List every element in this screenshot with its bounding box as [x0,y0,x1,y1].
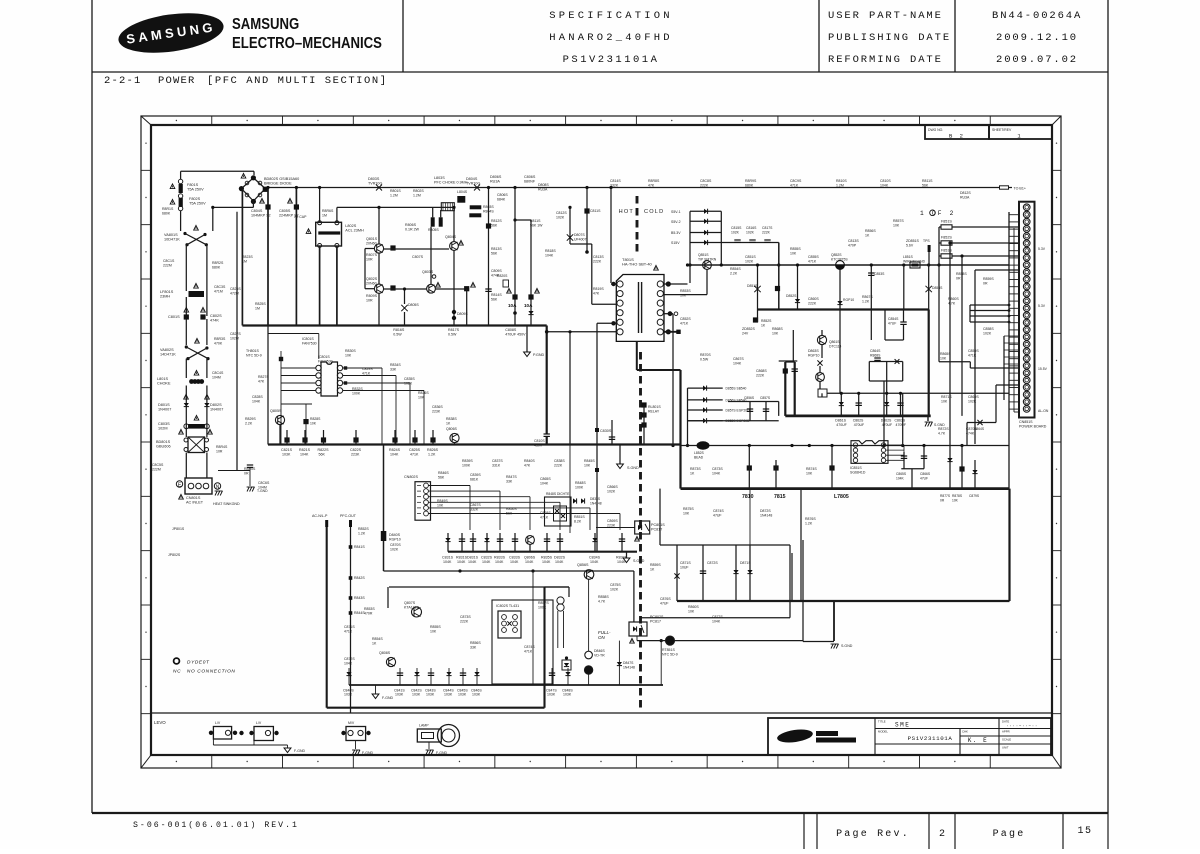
svg-text:C869S: C869S [607,519,618,523]
gnd mid triangle [526,326,528,353]
svg-text:C806S: C806S [497,193,508,197]
svg-text:CN851S: CN851S [1019,420,1033,424]
svg-text:C855S: C855S [808,255,819,259]
dark circle component [665,636,674,645]
svg-text:10K: 10K [683,511,690,515]
svg-text:R8R8S: R8R8S [648,179,660,183]
svg-text:C856S: C856S [744,396,755,400]
title block divider v1 [874,718,876,755]
svg-text:R853S: R853S [364,607,375,611]
svg-text:C837S: C837S [492,459,503,463]
svg-text:R835S: R835S [541,556,553,560]
bottom connector wires [212,739,214,745]
dwg no box [925,125,989,139]
svg-text:MODEL: MODEL [878,730,888,734]
svg-text:D803S: D803S [368,177,380,181]
svg-text:104K: 104K [590,560,599,564]
svg-text:RT851S: RT851S [662,648,675,652]
svg-text:C874S: C874S [524,645,535,649]
svg-text:471K: 471K [968,353,977,357]
wire x797 drop [797,265,799,310]
svg-text:471K: 471K [540,515,549,519]
svg-text:33K: 33K [506,479,513,483]
low bus forest [447,533,449,552]
loop box inner [492,600,553,684]
svg-text:C827S: C827S [230,332,241,336]
svg-text:10K: 10K [310,421,317,425]
svg-text:222K: 222K [762,230,771,234]
svg-text:471M: 471M [214,289,223,293]
svg-text:CHOKE: CHOKE [157,381,171,385]
svg-text:102K: 102K [610,587,619,591]
svg-text:470K: 470K [214,341,223,345]
fusible link F851S [941,225,952,229]
svg-text:223K: 223K [607,523,616,527]
svg-text:R847S: R847S [506,475,517,479]
svg-text:102K: 102K [607,489,616,493]
relay squares near dash [641,402,646,407]
svg-text:C851S: C851S [745,255,756,259]
svg-text:C835S: C835S [404,377,415,381]
svg-text:R829S: R829S [245,417,256,421]
svg-text:D857S EGP20D: D857S EGP20D [726,409,751,413]
gnd slash b7 [927,416,929,421]
wire tr left pin3 path [592,303,617,305]
svg-text:PFC-OUT: PFC-OUT [340,514,357,518]
svg-text:102M: 102M [158,426,168,430]
svg-text:470UF 450V: 470UF 450V [505,332,526,336]
svg-text:D804S: D804S [466,177,478,181]
gnd slash bottom 2 [426,750,428,755]
ic801 right wires [343,367,382,369]
svg-text:F802S: F802S [189,197,201,201]
svg-text:56K: 56K [491,223,498,227]
svg-text:R813S: R813S [491,247,502,251]
wire left col down3 [185,386,187,438]
svg-text:T5A 250V: T5A 250V [187,187,204,191]
svg-text:C817S: C817S [762,226,773,230]
svg-text:FAN7530: FAN7530 [318,359,333,363]
svg-text:R853S: R853S [680,289,691,293]
note nc [174,658,180,664]
pads on B3 [747,465,752,470]
svg-text:1M: 1M [322,213,327,217]
svg-text:470R: 470R [364,611,373,615]
svg-text:TIP SMTRN: TIP SMTRN [698,257,717,261]
ic851 right wires [886,444,904,446]
svg-text:BN44-00264A: BN44-00264A [992,10,1082,22]
svg-text:R817S: R817S [448,328,460,332]
wire x792 drop [791,553,793,601]
connector stub wires [1009,214,1019,216]
svg-text:X2 CAP: X2 CAP [294,215,307,219]
header CN802S [415,482,431,521]
svg-text:0.5W: 0.5W [700,357,709,361]
svg-text:D871S: D871S [740,561,751,565]
svg-text:C810S: C810S [880,179,891,183]
svg-text:R877S: R877S [940,494,951,498]
wire pc to left [596,527,635,529]
wire drop x531 fuse [530,220,532,326]
svg-text:C825S: C825S [409,448,421,452]
pfc fet Q801 [374,244,383,253]
svg-text:IC802S TL431: IC802S TL431 [496,604,519,608]
transistor Q807 [412,607,422,617]
svg-text:APPR: APPR [1002,730,1010,734]
connector CN851S [1019,202,1035,418]
svg-text:104K: 104K [344,661,353,665]
svg-text:47UF: 47UF [713,513,722,517]
header divider spec/labels [818,0,820,72]
svg-text:C802S: C802S [210,314,222,318]
svg-text:R860S: R860S [948,297,959,301]
small res tps [928,245,931,252]
wire x902 drop [902,362,904,382]
svg-text:1.2M: 1.2M [413,193,421,197]
svg-text:R801S: R801S [390,189,401,193]
svg-text:C807S: C807S [412,255,424,259]
svg-text:R865S: R865S [940,352,951,356]
svg-text:223K: 223K [432,409,441,413]
bottom connector 1 [213,727,231,740]
cap inlet [247,464,253,466]
svg-text:D872S: D872S [760,509,771,513]
frame inner rect [151,125,1052,755]
svg-text:471K: 471K [680,321,689,325]
svg-text:M/V: M/V [348,721,355,725]
svg-text:D831S: D831S [467,556,479,560]
svg-text:C860S: C860S [808,297,819,301]
svg-text:C831S: C831S [442,556,454,560]
diode row [184,403,189,407]
svg-text:C870S: C870S [966,427,977,431]
wire secondary rail y265 [686,264,1009,266]
svg-text:102K: 102K [983,331,992,335]
svg-text:DATE: DATE [1002,720,1009,724]
svg-text:L802S: L802S [345,224,356,228]
ic IC801S [321,362,338,396]
wire fuse drop [180,171,182,179]
svg-text:1 OF 2: 1 OF 2 [920,210,955,217]
svg-text:10A: 10A [508,303,517,308]
svg-text:R851S: R851S [574,515,585,519]
svg-text:R821S: R821S [299,448,311,452]
transistor Q856 [584,570,594,580]
svg-text:R8R4S: R8R4S [216,445,228,449]
svg-text:Q804S: Q804S [445,235,457,239]
q805 link [281,403,312,405]
svg-text:L852S: L852S [694,451,705,455]
svg-text:R860S: R860S [688,605,699,609]
svg-text:R838S: R838S [446,417,457,421]
svg-text:VD-TR: VD-TR [594,653,605,657]
svg-text:C801S: C801S [168,315,180,319]
wire x383 drop [383,445,385,572]
svg-text:R857S: R857S [893,219,904,223]
bus primary gnd elbow [679,370,681,489]
svg-text:8.2K: 8.2K [574,519,582,523]
bridge block BD801 [188,437,205,453]
pfc diode x2 [401,305,407,311]
wire x939 drop [938,227,940,362]
right ladder wires [970,304,1009,306]
svg-text:R823S: R823S [242,255,253,259]
svg-text:C867S: C867S [470,503,481,507]
wire drop x515 fuse [514,188,516,326]
svg-text:R875S: R875S [683,507,694,511]
svg-text:1N4148: 1N4148 [623,665,635,669]
ic801 feed top [268,333,319,335]
wire x884 drop [883,381,885,446]
photocoupler PC802S [629,622,647,636]
svg-text:ZD851S: ZD851S [906,239,920,243]
svg-text:C838S: C838S [554,459,565,463]
svg-text:R814S: R814S [491,293,502,297]
svg-text:D846S: D846S [594,649,605,653]
svg-text:L851S: L851S [903,255,914,259]
svg-text:104K: 104K [733,361,742,365]
svg-text:RU3A: RU3A [538,187,548,191]
pfc pad right [435,288,466,290]
svg-text:C816S: C816S [746,226,757,230]
cap c830 [609,436,615,438]
svg-text:UF4007: UF4007 [574,237,587,241]
title block row line2 [875,743,960,745]
svg-text:470UF: 470UF [836,423,847,427]
wire left col down2 [185,359,187,378]
wire tr left pin5 path [597,322,617,324]
wire ac top [181,170,254,172]
svg-text:Q801S: Q801S [366,237,378,241]
svg-text:L7805: L7805 [834,494,849,500]
svg-text:470P: 470P [848,243,857,247]
svg-text:S.GND: S.GND [627,466,639,470]
svg-text:C829S: C829S [362,367,373,371]
wire x929 thick [928,310,930,416]
svg-text:222K: 222K [700,183,709,187]
svg-text:24V: 24V [742,331,749,335]
wire neutral return x237 [236,212,238,471]
svg-text:680K: 680K [212,265,221,269]
svg-text:POWER BOARD: POWER BOARD [1019,424,1047,428]
svg-text:103K: 103K [563,693,572,697]
svg-text:C858S: C858S [983,327,994,331]
svg-text:R868S: R868S [772,327,783,331]
gnd slash inlet2 [247,487,249,492]
svg-text:TO B1+: TO B1+ [1014,187,1026,191]
svg-text:472M: 472M [230,291,239,295]
svg-text:F-GND: F-GND [294,749,306,753]
photocoupler PC801S [635,521,650,534]
wire fuse to varistor [180,211,182,232]
svg-text:C812S: C812S [556,211,567,215]
svg-text:R845S: R845S [584,459,595,463]
svg-text:1: 1 [1017,133,1022,140]
wire x660 feed [659,489,661,545]
svg-text:Q851S: Q851S [698,253,709,257]
svg-text:C877S: C877S [712,615,723,619]
title block row lines right [960,735,1051,737]
svg-text:0R: 0R [940,498,945,502]
svg-text:15.5V: 15.5V [1038,367,1048,371]
ic801 left wires [281,367,316,369]
svg-text:PC802S: PC802S [650,615,664,619]
svg-text:DWG NO.: DWG NO. [928,128,943,132]
wire x902 drop2 [902,393,904,445]
svg-text:471K: 471K [790,183,799,187]
probe wire 1 [325,520,328,527]
svg-text:20N60: 20N60 [366,241,377,245]
svg-text:0.1R 2W: 0.1R 2W [405,227,420,231]
svg-text:D855S SB540: D855S SB540 [726,387,747,391]
svg-text:471K: 471K [344,629,353,633]
svg-text:56K: 56K [319,452,326,456]
svg-text:56K: 56K [491,297,498,301]
svg-text:7810: 7810 [742,494,754,500]
svg-text:C8C5S: C8C5S [152,463,164,467]
cap c810 drop [546,326,548,435]
svg-text:SME: SME [895,722,910,729]
connector mid stubs [1003,336,1005,400]
svg-text:47K: 47K [258,379,265,383]
svg-text:C809S: C809S [491,269,502,273]
wire diamond bottom stub [252,202,254,208]
svg-text:C834S: C834S [589,556,601,560]
pfc wire q1 to q4 [384,248,449,250]
diode inline bus 1 [376,185,382,191]
loop bus forest [348,668,350,685]
svg-text:C857S: C857S [760,396,771,400]
aux coil [557,597,564,604]
svg-text:D802S: D802S [210,403,222,407]
svg-text:222K: 222K [460,619,469,623]
svg-text:R858S: R858S [956,272,967,276]
svg-text:23MH: 23MH [160,294,170,298]
svg-text:REFORMING DATE: REFORMING DATE [828,54,943,66]
wire filter top pin right [336,207,338,222]
svg-text:S15V: S15V [671,241,680,245]
svg-text:R867S: R867S [862,295,873,299]
svg-text:R846S: R846S [438,471,449,475]
svg-text:R807S: R807S [366,253,378,257]
svg-text:Q861S: Q861S [829,340,840,344]
svg-text:102K: 102K [390,547,399,551]
svg-text:····–··–··: ····–··–·· [1006,724,1038,729]
svg-text:222K: 222K [593,259,602,263]
svg-text:R859S: R859S [650,563,661,567]
svg-text:KTA1023: KTA1023 [404,605,419,609]
svg-text:C8C6S: C8C6S [258,481,270,485]
svg-text:104K: 104K [252,399,261,403]
svg-text:222M: 222M [163,263,172,267]
svg-text:C872S: C872S [344,657,355,661]
svg-text:C864S: C864S [870,349,881,353]
svg-text:104K: 104K [712,471,721,475]
wire tr right pin4 [664,313,673,315]
wire left thick drop from diamond [241,189,243,326]
svg-text:TH801S: TH801S [246,349,260,353]
wire x778 drop [778,243,780,310]
svg-text:R8R6S: R8R6S [322,209,334,213]
svg-text:1.2K: 1.2K [428,452,436,456]
svg-text:C806S: C806S [524,175,536,179]
svg-text:10K: 10K [418,395,425,399]
svg-text:C872S: C872S [707,561,718,565]
wire x975 [974,270,976,444]
svg-text:10R: 10R [366,298,373,302]
ferrite bead on rail [910,262,920,268]
svg-text:HA-THO SBT-40: HA-THO SBT-40 [622,261,653,266]
svg-text:R833S: R833S [494,556,506,560]
svg-text:56K: 56K [506,511,513,515]
svg-text:K. E: K. E [968,737,988,744]
svg-text:10K: 10K [952,498,959,502]
svg-text:R818S: R818S [545,249,556,253]
svg-text:D808S: D808S [538,183,549,187]
wire tr bottom thick [636,341,638,370]
svg-text:103K: 103K [395,693,404,697]
inductor L801 [189,379,194,384]
svg-text:14D471K: 14D471K [160,352,176,356]
svg-text:1N4148: 1N4148 [760,513,772,517]
svg-text:1M: 1M [255,306,260,310]
led pair [585,651,593,659]
filter block L802S [316,222,342,246]
svg-text:102K: 102K [731,230,740,234]
svg-text:R839S: R839S [462,459,473,463]
svg-text:100K: 100K [352,391,361,395]
svg-text:1N4007: 1N4007 [158,407,171,411]
svg-text:102K: 102K [746,230,755,234]
ac inlet connector [185,478,212,494]
svg-text:331K: 331K [492,463,501,467]
svg-text:B5.3V: B5.3V [671,231,681,235]
svg-text:C871S: C871S [680,561,691,565]
svg-text:Page Rev.: Page Rev. [836,829,910,840]
svg-text:5.6V: 5.6V [906,243,914,247]
svg-text:R872S: R872S [938,427,949,431]
svg-text:1.2M: 1.2M [836,183,844,187]
svg-text:C828S: C828S [252,395,263,399]
svg-text:S5V-1: S5V-1 [671,210,681,214]
rail secondary out [827,392,1010,394]
svg-text:R831S: R831S [456,556,468,560]
svg-text:4.7K: 4.7K [598,599,606,603]
bus secondary out B7 [785,414,930,417]
svg-text:104K: 104K [542,560,551,564]
svg-text:222K: 222K [808,301,817,305]
title block outer [768,718,1051,755]
svg-text:R873S: R873S [690,467,701,471]
svg-text:47K: 47K [524,463,531,467]
bus secondary gnd [681,487,1010,490]
svg-text:104K: 104K [495,560,504,564]
wire filter bottom drops [319,246,321,326]
svg-text:POWER: POWER [158,75,196,87]
svg-text:COLD: COLD [644,209,664,215]
svg-text:C876S: C876S [660,597,671,601]
svg-text:DTC114: DTC114 [829,344,841,348]
svg-text:R848S DICHTE: R848S DICHTE [546,492,570,496]
svg-text:C814S: C814S [610,179,621,183]
svg-text:10K: 10K [790,251,797,255]
svg-text:222K: 222K [554,463,563,467]
gnd triangle loop [375,685,377,694]
svg-text:4.7K: 4.7K [948,301,956,305]
svg-text:R830S: R830S [345,349,356,353]
svg-text:C869S: C869S [968,395,979,399]
svg-text:Q806S: Q806S [524,556,536,560]
